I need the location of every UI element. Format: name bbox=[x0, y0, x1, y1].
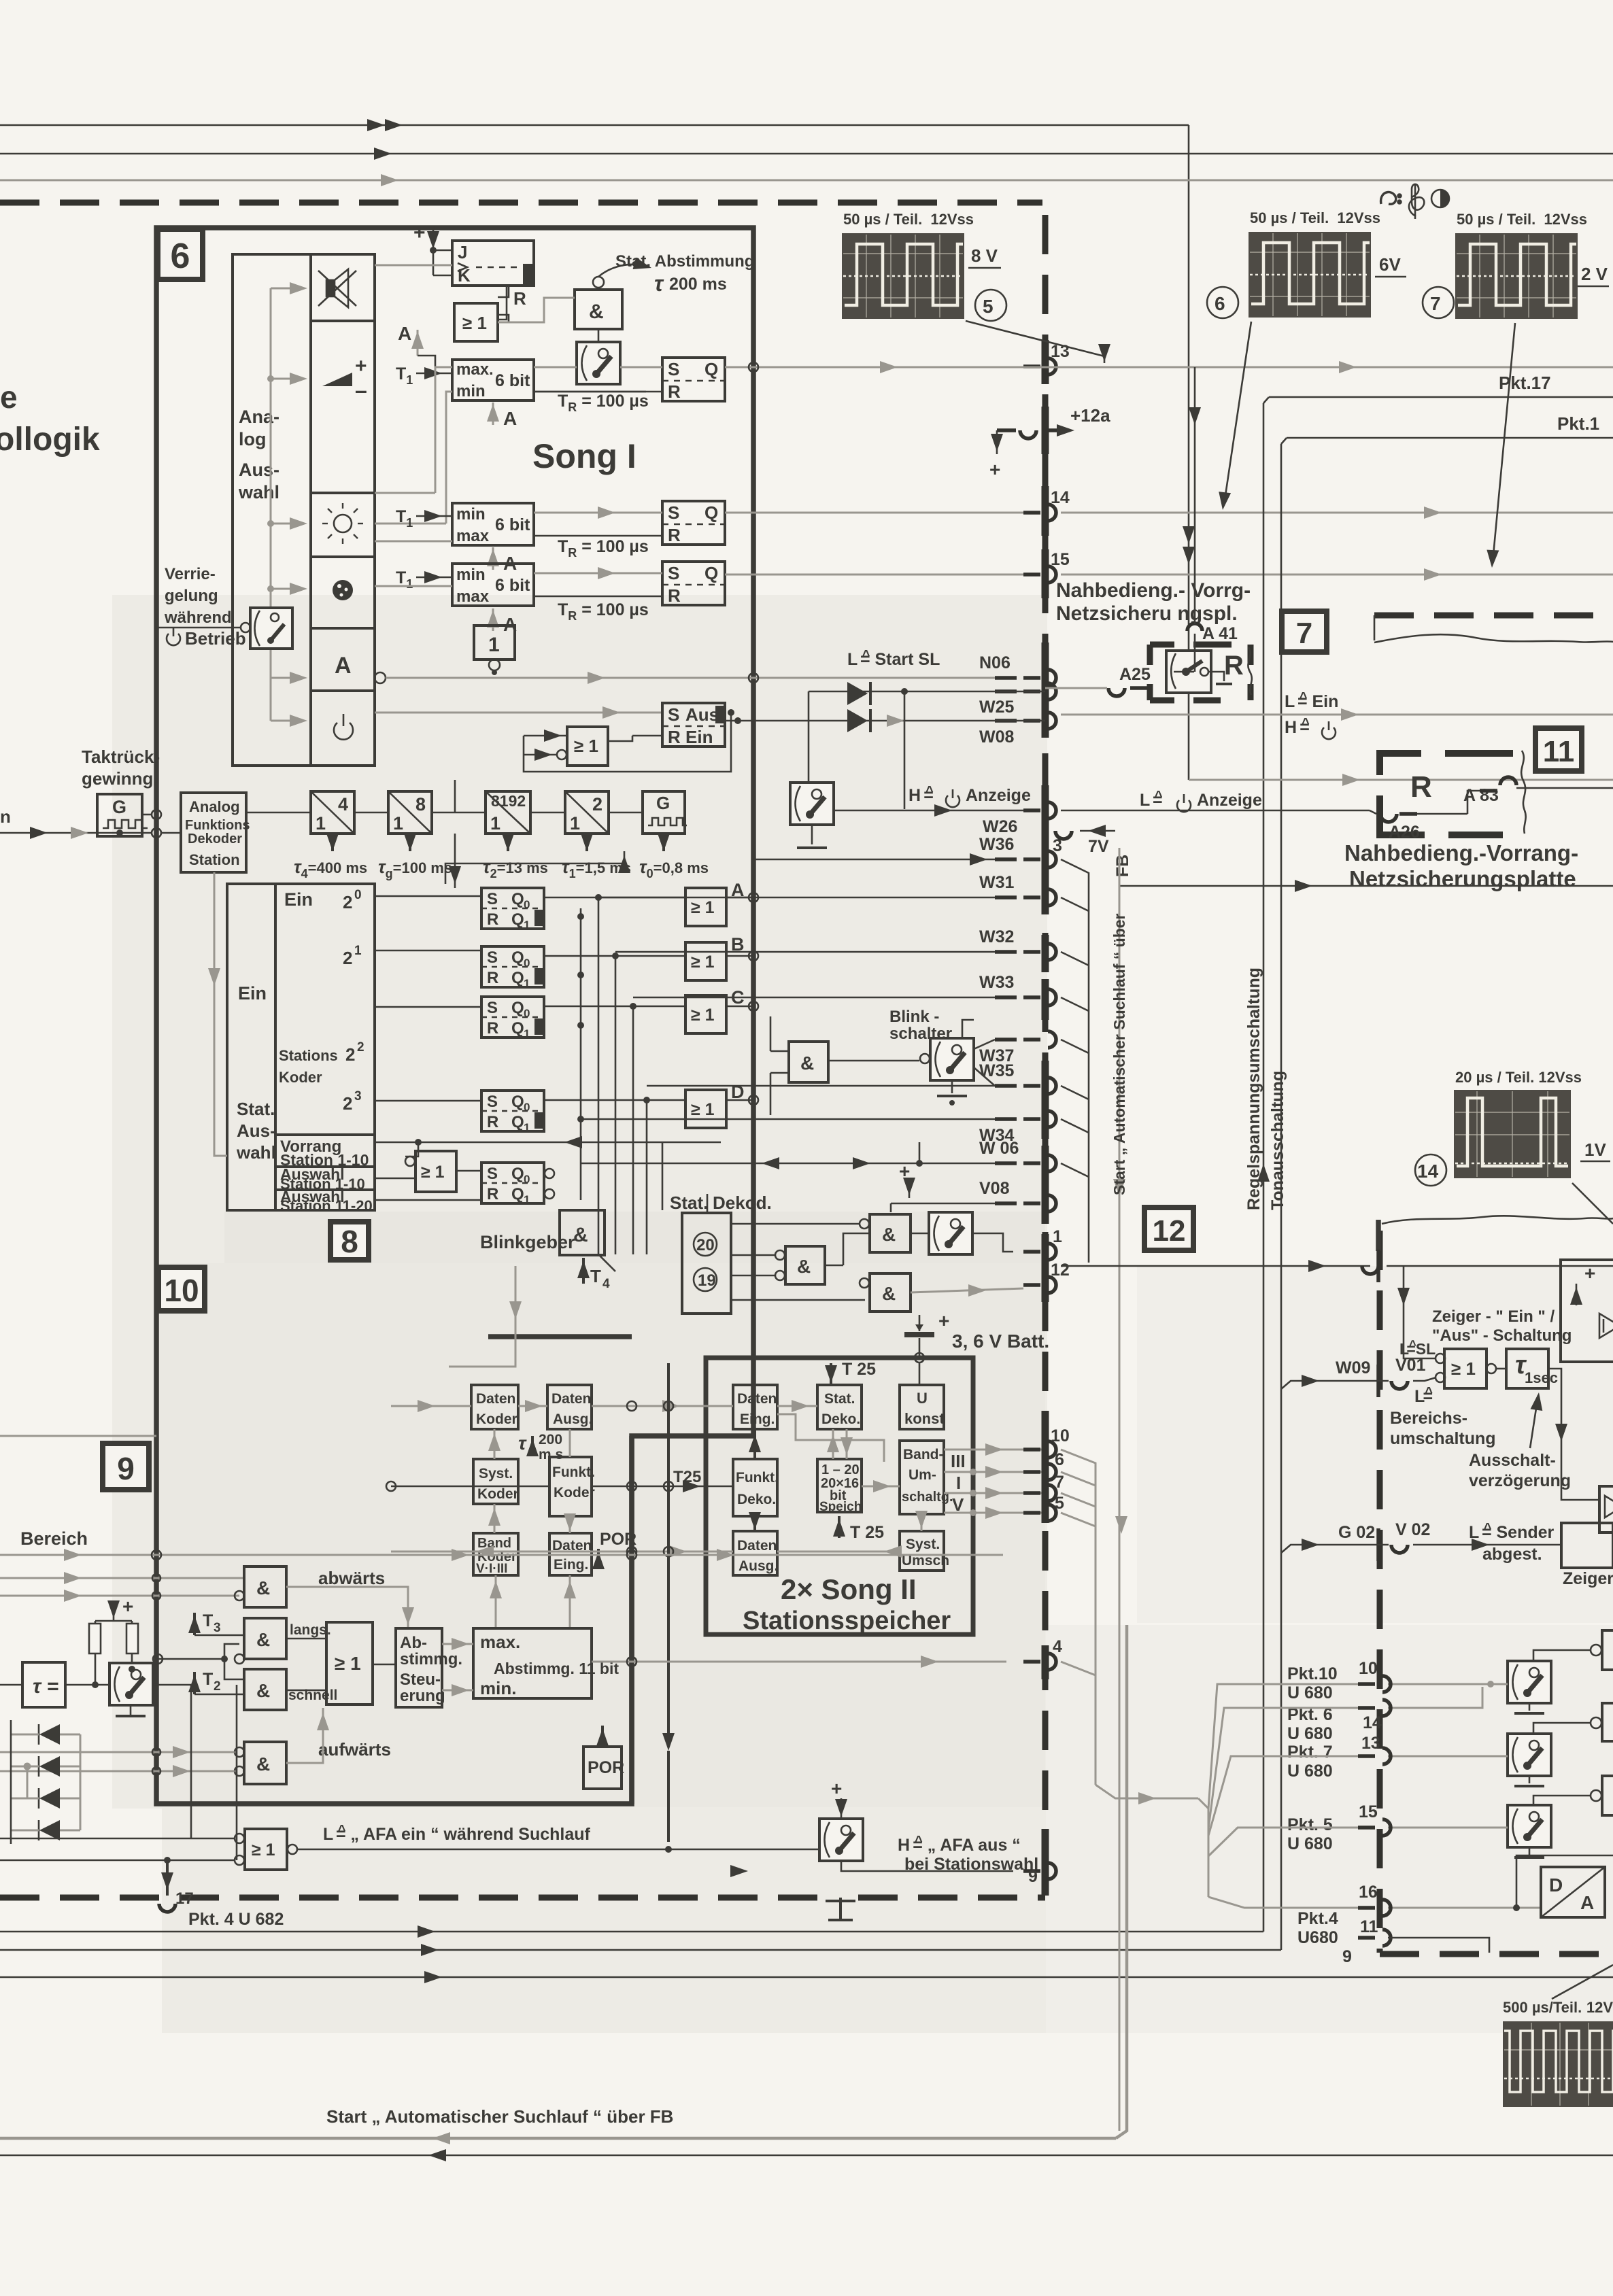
and gate top right bbox=[860, 1214, 911, 1252]
svg-text:V08: V08 bbox=[979, 1179, 1010, 1198]
svg-text:D: D bbox=[1549, 1874, 1563, 1896]
svg-text:R: R bbox=[1410, 770, 1432, 804]
svg-text:max: max bbox=[456, 527, 490, 545]
gray input lines bbox=[0, 1554, 632, 1556]
pin W33 bbox=[979, 973, 1056, 1006]
svg-text:L^=: L^= bbox=[1414, 1385, 1433, 1406]
svg-text:Blinkgeber: Blinkgeber bbox=[480, 1232, 575, 1252]
tau out vertical bbox=[1548, 1369, 1599, 1500]
svg-text:Q: Q bbox=[511, 1093, 524, 1111]
svg-text:wahl: wahl bbox=[236, 1142, 276, 1163]
svg-text:14: 14 bbox=[1051, 488, 1070, 507]
icon brightness bbox=[322, 503, 363, 544]
svg-text:H ^=: H ^= bbox=[1285, 716, 1310, 737]
svg-text:≥ 1: ≥ 1 bbox=[691, 898, 715, 917]
middle vertical grid wires bbox=[581, 897, 662, 1254]
or gates column bbox=[685, 880, 745, 926]
D/A box bbox=[1541, 1867, 1605, 1917]
svg-text:R: R bbox=[668, 585, 681, 606]
Funkt Koder bbox=[549, 1457, 595, 1516]
svg-text:Daten: Daten bbox=[737, 1391, 777, 1407]
svg-text:Koder: Koder bbox=[476, 1411, 517, 1427]
Analog Funktions Dekoder box bbox=[181, 793, 250, 872]
board 12 dashed vertical bbox=[1377, 1231, 1383, 1953]
svg-text:max.: max. bbox=[480, 1632, 520, 1652]
svg-text:50 µs / Teil.: 50 µs / Teil. bbox=[1457, 211, 1535, 228]
svg-text:R: R bbox=[487, 1113, 498, 1131]
svg-text:R: R bbox=[487, 969, 498, 987]
svg-text:1: 1 bbox=[524, 977, 530, 990]
blink wire to pin1 bbox=[972, 1233, 1013, 1252]
wires brightness colour rows bbox=[375, 541, 452, 543]
svg-text:Funktions: Funktions bbox=[185, 818, 250, 833]
svg-text:e: e bbox=[0, 379, 18, 415]
svg-text:gelung: gelung bbox=[165, 587, 218, 605]
scope 14 bbox=[1415, 1069, 1613, 1224]
svg-text:1: 1 bbox=[1053, 1227, 1062, 1246]
band koder line to pin bbox=[517, 1554, 520, 1556]
board boundary dashed top bbox=[0, 200, 1042, 206]
svg-text:2× Song II: 2× Song II bbox=[781, 1573, 917, 1605]
svg-text:7: 7 bbox=[1430, 293, 1441, 314]
W row lines from middle verticals bbox=[581, 859, 995, 1271]
svg-text:500 µs/Teil.: 500 µs/Teil. bbox=[1503, 1999, 1582, 2016]
line 1147 bbox=[1189, 779, 1613, 781]
svg-text:L^=SL: L^=SL bbox=[1399, 1337, 1436, 1358]
svg-text:≥ 1: ≥ 1 bbox=[252, 1840, 275, 1860]
svg-text:200: 200 bbox=[539, 1432, 562, 1447]
and schnell bbox=[235, 1654, 286, 1710]
pin4 line bbox=[592, 1661, 1006, 1663]
unit outline bbox=[156, 228, 753, 1804]
connector 17 drop bbox=[166, 1860, 169, 1896]
svg-text:+12a: +12a bbox=[1070, 405, 1110, 426]
stat abstimmung wire bbox=[593, 258, 653, 290]
svg-text:Koder: Koder bbox=[554, 1485, 595, 1501]
svg-text:Anzeige: Anzeige bbox=[1197, 791, 1262, 810]
pin W34 bbox=[979, 1111, 1056, 1145]
Pkt 1 line bbox=[1281, 413, 1613, 444]
gray line from top into Daten Koder bbox=[449, 1312, 515, 1367]
pin 1 bbox=[1023, 1227, 1062, 1260]
label box 9 bbox=[103, 1443, 149, 1490]
svg-text:Anzeige: Anzeige bbox=[966, 786, 1031, 805]
svg-text:13: 13 bbox=[1361, 1734, 1380, 1753]
svg-text:1: 1 bbox=[524, 1027, 530, 1040]
diode 2 on W08 line bbox=[725, 720, 1045, 722]
svg-text:V·I·III: V·I·III bbox=[476, 1562, 507, 1576]
svg-text:Station: Station bbox=[189, 851, 240, 868]
svg-text:20 µs / Teil.: 20 µs / Teil. bbox=[1455, 1069, 1534, 1086]
line to platte bbox=[1119, 885, 1613, 887]
svg-text:&: & bbox=[882, 1283, 896, 1304]
svg-text:Verrie-: Verrie- bbox=[165, 565, 216, 583]
svg-text:U680: U680 bbox=[1297, 1928, 1338, 1947]
svg-text:Aus-: Aus- bbox=[239, 460, 279, 480]
svg-text:Pkt. 7: Pkt. 7 bbox=[1287, 1743, 1333, 1762]
svg-text:≥ 1: ≥ 1 bbox=[691, 1006, 715, 1025]
pin W26 bbox=[983, 802, 1056, 836]
label box 6 bbox=[158, 229, 203, 279]
wire G to bus bbox=[142, 814, 151, 816]
svg-text:Eing.: Eing. bbox=[740, 1411, 775, 1427]
svg-text:Ausg.: Ausg. bbox=[553, 1411, 592, 1427]
svg-text:–: – bbox=[355, 378, 367, 402]
svg-text:abwärts: abwärts bbox=[318, 1568, 385, 1588]
svg-text:V 02: V 02 bbox=[1395, 1520, 1430, 1539]
svg-text:V01: V01 bbox=[1395, 1356, 1426, 1375]
svg-text:min: min bbox=[456, 382, 486, 400]
svg-text:50 µs / Teil.: 50 µs / Teil. bbox=[1250, 209, 1329, 226]
power row line bbox=[375, 712, 662, 714]
svg-text:≥ 1: ≥ 1 bbox=[691, 953, 715, 972]
svg-text:T: T bbox=[203, 1670, 213, 1689]
AFA or gate bbox=[235, 1829, 297, 1870]
svg-text:R: R bbox=[668, 381, 681, 402]
Abstimm Steuerung box bbox=[396, 1628, 462, 1707]
svg-text:III: III bbox=[951, 1451, 966, 1471]
svg-text:Funkt.: Funkt. bbox=[736, 1470, 779, 1486]
aufwaerts gate bbox=[235, 1742, 286, 1784]
gray line into 9 bbox=[0, 1435, 156, 1437]
Daten Eing bbox=[549, 1533, 592, 1575]
SR ffs column bbox=[481, 888, 544, 931]
connector bar solid segments bbox=[1042, 340, 1049, 1896]
svg-text:Daten: Daten bbox=[476, 1391, 515, 1407]
svg-text:8192: 8192 bbox=[491, 792, 526, 810]
label box 8 bbox=[330, 1222, 369, 1260]
pin 14 bbox=[1023, 488, 1070, 521]
svg-text:min: min bbox=[456, 505, 486, 524]
svg-text:Ein: Ein bbox=[284, 889, 313, 910]
svg-text:POR: POR bbox=[588, 1758, 624, 1777]
svg-text:stimmg.: stimmg. bbox=[400, 1650, 462, 1668]
svg-text:12: 12 bbox=[1051, 1261, 1070, 1280]
svg-text:FB: FB bbox=[1113, 855, 1132, 877]
svg-text:&: & bbox=[256, 1680, 270, 1701]
bottom right scope bbox=[1503, 1965, 1613, 2107]
svg-text:R: R bbox=[668, 525, 681, 545]
svg-text:Steu-: Steu- bbox=[400, 1670, 441, 1689]
svg-text:Q: Q bbox=[511, 1019, 524, 1038]
svg-text:9: 9 bbox=[1028, 1867, 1038, 1886]
svg-text:T 25: T 25 bbox=[850, 1523, 884, 1542]
gray wire from decoder down bbox=[214, 872, 227, 1156]
svg-text:verzögerung: verzögerung bbox=[1469, 1471, 1571, 1490]
T1 input 1 bbox=[396, 364, 452, 387]
wire or to and bbox=[498, 298, 575, 322]
V02 G02 bbox=[1281, 1520, 1561, 1561]
svg-text:&: & bbox=[882, 1224, 896, 1245]
svg-text:I: I bbox=[956, 1473, 961, 1493]
svg-text:A: A bbox=[503, 408, 517, 429]
svg-text:2: 2 bbox=[343, 1093, 352, 1114]
box "1" bbox=[474, 626, 515, 675]
switch pkt7 bbox=[1508, 1734, 1551, 1786]
svg-text:Q: Q bbox=[704, 502, 718, 523]
svg-text:R: R bbox=[513, 288, 526, 309]
svg-text:min: min bbox=[456, 566, 486, 584]
L Anzeige line bbox=[1061, 810, 1370, 812]
svg-text:10: 10 bbox=[1359, 1659, 1378, 1678]
svg-text:T: T bbox=[590, 1266, 601, 1286]
svg-text:U: U bbox=[917, 1390, 928, 1407]
svg-text:1sec: 1sec bbox=[1525, 1369, 1558, 1386]
svg-text:2: 2 bbox=[214, 1679, 221, 1694]
svg-text:Betrieb: Betrieb bbox=[185, 628, 246, 649]
SR ff 1 bbox=[662, 358, 725, 402]
rail lines left bbox=[0, 1931, 1263, 1933]
T25 below bbox=[833, 1516, 884, 1542]
svg-text:bei Stationswahl: bei Stationswahl bbox=[904, 1855, 1038, 1874]
svg-text:W 06: W 06 bbox=[979, 1139, 1019, 1158]
svg-text:8: 8 bbox=[341, 1224, 358, 1259]
svg-text:max: max bbox=[456, 587, 490, 606]
gray line pin 12 bbox=[911, 1288, 1023, 1292]
row 2: 6bit 2 bbox=[452, 503, 534, 545]
tau 200ms label bbox=[518, 1432, 563, 1462]
label box 10 bbox=[158, 1267, 205, 1311]
svg-text:G: G bbox=[112, 797, 126, 817]
svg-text:&: & bbox=[800, 1052, 814, 1074]
svg-text:Taktrück-: Taktrück- bbox=[82, 747, 160, 767]
svg-text:≥ 1: ≥ 1 bbox=[574, 736, 598, 756]
Anzeige switch bbox=[790, 783, 834, 848]
svg-text:R: R bbox=[487, 910, 498, 929]
H anzeige line to W26 bbox=[835, 810, 1023, 812]
svg-text:3: 3 bbox=[214, 1621, 221, 1635]
svg-text:S: S bbox=[668, 563, 679, 583]
svg-text:Daten: Daten bbox=[551, 1391, 591, 1407]
1-20 speich box bbox=[817, 1459, 862, 1514]
Aus/Ein ff bbox=[662, 703, 725, 747]
6bit box 1 bbox=[452, 360, 534, 400]
svg-text:+: + bbox=[122, 1596, 133, 1617]
switch pkt5 bbox=[1508, 1805, 1551, 1857]
svg-text:4: 4 bbox=[338, 794, 348, 815]
wire bundle right of bar bbox=[1061, 859, 1089, 1183]
koder row wires bbox=[375, 895, 481, 897]
pin W37 bbox=[979, 1031, 1056, 1065]
pin V08 bbox=[979, 1179, 1056, 1212]
T2 bbox=[188, 1670, 244, 1694]
T3 bbox=[188, 1611, 244, 1635]
svg-text:&: & bbox=[256, 1753, 270, 1775]
svg-text:A 41: A 41 bbox=[1202, 624, 1238, 643]
svg-text:15: 15 bbox=[1359, 1802, 1378, 1821]
Pkt 17 line bbox=[1263, 373, 1613, 403]
pin 9 bbox=[1023, 1863, 1056, 1886]
svg-text:Pkt. 5: Pkt. 5 bbox=[1287, 1815, 1333, 1834]
svg-text:Regelspannungsumschaltung: Regelspannungsumschaltung bbox=[1244, 967, 1263, 1210]
svg-text:1: 1 bbox=[316, 813, 326, 834]
svg-text:L ^=: L ^= bbox=[1140, 789, 1163, 810]
A arrow up into 6bit1 bbox=[487, 402, 517, 429]
svg-text:10: 10 bbox=[1051, 1426, 1070, 1445]
svg-text:R: R bbox=[487, 1185, 498, 1203]
svg-text:wahl: wahl bbox=[238, 482, 279, 502]
svg-text:S: S bbox=[487, 890, 498, 908]
svg-text:aufwärts: aufwärts bbox=[318, 1739, 391, 1760]
vertical bus tau4 down bbox=[454, 780, 456, 812]
svg-text:3: 3 bbox=[354, 1089, 362, 1103]
svg-text:W31: W31 bbox=[979, 873, 1015, 892]
Daten Ausg (inner) bbox=[733, 1531, 778, 1575]
input fork bbox=[158, 1644, 244, 1679]
thick junction wire from koder to song2 bbox=[488, 1334, 632, 1339]
Band Umschaltg bbox=[900, 1441, 953, 1514]
svg-text:Analog: Analog bbox=[189, 798, 240, 815]
svg-text:≥ 1: ≥ 1 bbox=[1451, 1358, 1476, 1379]
svg-text:Syst.: Syst. bbox=[906, 1537, 940, 1552]
svg-text:1: 1 bbox=[488, 634, 500, 656]
svg-text:R: R bbox=[668, 727, 681, 747]
pin W08 bbox=[979, 713, 1056, 747]
svg-text:umschaltung: umschaltung bbox=[1390, 1429, 1496, 1448]
svg-text:H ^=: H ^= bbox=[909, 784, 934, 805]
svg-text:0: 0 bbox=[354, 888, 362, 902]
or gate lower bbox=[557, 727, 608, 766]
svg-text:Q: Q bbox=[511, 999, 524, 1017]
Band Koder bbox=[473, 1533, 518, 1576]
tau labels bbox=[294, 834, 367, 880]
inner wires bbox=[777, 1405, 817, 1407]
Syst Umsch bbox=[900, 1531, 949, 1571]
svg-text:12V: 12V bbox=[1586, 1999, 1613, 2016]
svg-text:Pkt. 4 U 682: Pkt. 4 U 682 bbox=[188, 1910, 284, 1929]
A input arrow bbox=[398, 323, 435, 367]
Ein up arrow bbox=[445, 851, 624, 884]
music symbols bbox=[1381, 192, 1402, 204]
vertical link bbox=[236, 1685, 238, 1860]
and gate blinkgeber bbox=[560, 1210, 605, 1255]
switch 9 bbox=[109, 1663, 153, 1716]
and gate mid bbox=[775, 1246, 825, 1284]
svg-text:Speich: Speich bbox=[819, 1500, 862, 1514]
icon volume bbox=[322, 355, 367, 402]
svg-text:&: & bbox=[256, 1629, 270, 1650]
svg-text:U 680: U 680 bbox=[1287, 1762, 1333, 1781]
svg-text:+: + bbox=[831, 1778, 842, 1799]
AFA ein line bbox=[297, 1849, 819, 1851]
pin W35 bbox=[979, 1061, 1056, 1094]
W09 V01 pin bbox=[1281, 1356, 1436, 1397]
funkt koder line bbox=[592, 1486, 733, 1488]
wire mute to JK bbox=[375, 264, 452, 267]
svg-text:L ^= Ein: L ^= Ein bbox=[1285, 690, 1338, 711]
svg-text:Tonausschaltung: Tonausschaltung bbox=[1268, 1071, 1287, 1210]
svg-text:W25: W25 bbox=[979, 698, 1015, 717]
wire 6bit1 min to R bbox=[534, 391, 646, 393]
svg-text:9: 9 bbox=[1342, 1947, 1352, 1966]
svg-text:U 680: U 680 bbox=[1287, 1724, 1333, 1743]
Syst Koder bbox=[473, 1459, 519, 1504]
pin +12a bbox=[989, 405, 1110, 480]
svg-text:S: S bbox=[487, 948, 498, 967]
and abwaerts bbox=[235, 1566, 286, 1607]
svg-text:Q: Q bbox=[511, 890, 524, 908]
AFA switch bbox=[819, 1778, 863, 1861]
svg-text:Q: Q bbox=[511, 1113, 524, 1131]
svg-text:Pkt.10: Pkt.10 bbox=[1287, 1664, 1338, 1683]
svg-text:G 02: G 02 bbox=[1338, 1523, 1375, 1542]
svg-text:≥ 1: ≥ 1 bbox=[335, 1653, 361, 1674]
svg-text:8: 8 bbox=[415, 794, 426, 815]
stations koder box bbox=[227, 884, 375, 1210]
svg-text:A: A bbox=[398, 323, 411, 344]
switch under and bbox=[577, 329, 620, 384]
divider boxes bbox=[311, 791, 354, 834]
svg-text:Q: Q bbox=[511, 910, 524, 929]
and gate top bbox=[575, 290, 622, 329]
svg-text:14: 14 bbox=[1363, 1713, 1382, 1732]
svg-text:Bereichs-: Bereichs- bbox=[1390, 1409, 1467, 1428]
svg-text:&: & bbox=[589, 301, 604, 323]
svg-text:Zeigerlä: Zeigerlä bbox=[1563, 1569, 1613, 1588]
svg-text:2: 2 bbox=[592, 794, 602, 815]
T25 above bbox=[825, 1360, 876, 1385]
svg-text:Q: Q bbox=[511, 969, 524, 987]
wire R to or bbox=[498, 286, 509, 322]
svg-text:Stations: Stations bbox=[279, 1047, 338, 1064]
svg-text:Song I: Song I bbox=[532, 437, 636, 475]
svg-text:15: 15 bbox=[1051, 550, 1070, 569]
svg-text:Netzsicherungsplatte: Netzsicherungsplatte bbox=[1349, 866, 1576, 891]
svg-text:R: R bbox=[487, 1019, 498, 1038]
svg-text:12Vss: 12Vss bbox=[1337, 209, 1380, 226]
koder column wires bbox=[494, 1429, 496, 1459]
svg-text:"Aus" - Schaltung: "Aus" - Schaltung bbox=[1432, 1326, 1572, 1345]
svg-text:Stat.: Stat. bbox=[237, 1099, 275, 1119]
svg-text:≥ 1: ≥ 1 bbox=[691, 1100, 715, 1119]
svg-text:1: 1 bbox=[490, 813, 500, 834]
svg-text:L ^= Sender: L ^= Sender bbox=[1469, 1521, 1555, 1542]
svg-text:τ: τ bbox=[654, 271, 664, 296]
box 11 bbox=[1535, 728, 1582, 771]
amp box top right bbox=[1561, 1260, 1613, 1362]
svg-text:Q: Q bbox=[704, 359, 718, 379]
svg-text:Ausg.: Ausg. bbox=[738, 1558, 778, 1574]
svg-text:S: S bbox=[487, 1093, 498, 1111]
svg-text:min.: min. bbox=[480, 1678, 516, 1698]
relay R A26/A83 dashed bbox=[1370, 751, 1613, 842]
svg-text:Stat.: Stat. bbox=[670, 1193, 708, 1213]
svg-text:8 V: 8 V bbox=[971, 245, 998, 266]
svg-text:Deko.: Deko. bbox=[737, 1492, 776, 1507]
svg-text:A26: A26 bbox=[1389, 823, 1420, 842]
pin 4 bbox=[1023, 1637, 1062, 1670]
svg-text:A25: A25 bbox=[1119, 665, 1151, 684]
svg-text:4: 4 bbox=[602, 1277, 610, 1291]
svg-text:gewinng.: gewinng. bbox=[82, 768, 158, 789]
svg-text:Dekod.: Dekod. bbox=[713, 1193, 772, 1213]
svg-text:≥ 1: ≥ 1 bbox=[462, 313, 487, 333]
svg-text:Ausschalt-: Ausschalt- bbox=[1469, 1451, 1556, 1470]
Funkt Deko (inner) bbox=[733, 1459, 779, 1516]
svg-text:D: D bbox=[731, 1082, 745, 1102]
svg-text:U 680: U 680 bbox=[1287, 1683, 1333, 1702]
icon power bbox=[334, 714, 353, 740]
zeigerlaemp box bbox=[1561, 1523, 1613, 1568]
svg-text:während: während bbox=[164, 609, 232, 627]
svg-text:2: 2 bbox=[343, 948, 352, 968]
svg-text:&: & bbox=[573, 1224, 588, 1246]
svg-text:Funkt.: Funkt. bbox=[552, 1464, 595, 1480]
Daten Eing (inner) bbox=[733, 1385, 777, 1429]
Daten Ausg bbox=[547, 1385, 592, 1429]
svg-text:τ: τ bbox=[518, 1433, 527, 1454]
svg-text:20: 20 bbox=[696, 1236, 715, 1254]
